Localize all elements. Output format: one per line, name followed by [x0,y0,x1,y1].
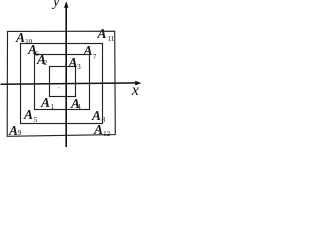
label A1 [41,96,50,110]
inner square (A1-A4) [50,67,76,97]
x-axis arrowhead [135,81,141,86]
third square (A9-A12) [21,44,103,124]
label A7 [84,44,93,58]
label A11 [98,27,107,41]
label A9 [9,124,18,138]
label A2 [37,53,46,67]
label A5 [24,108,33,122]
outer square (4th, unlabeled) [7,31,115,136]
label A10 [16,31,25,45]
label A6 [28,43,37,57]
y axis label [53,0,59,10]
y-axis arrowhead [64,1,69,8]
x axis label [132,83,139,99]
y-axis [65,7,67,148]
label A4 [71,97,80,111]
label A12 [94,123,103,137]
label A3 [69,56,78,70]
x-axis [1,83,137,84]
second square (A5-A8) [35,55,90,110]
faint origin mark [58,87,60,88]
label A8 [92,109,101,123]
